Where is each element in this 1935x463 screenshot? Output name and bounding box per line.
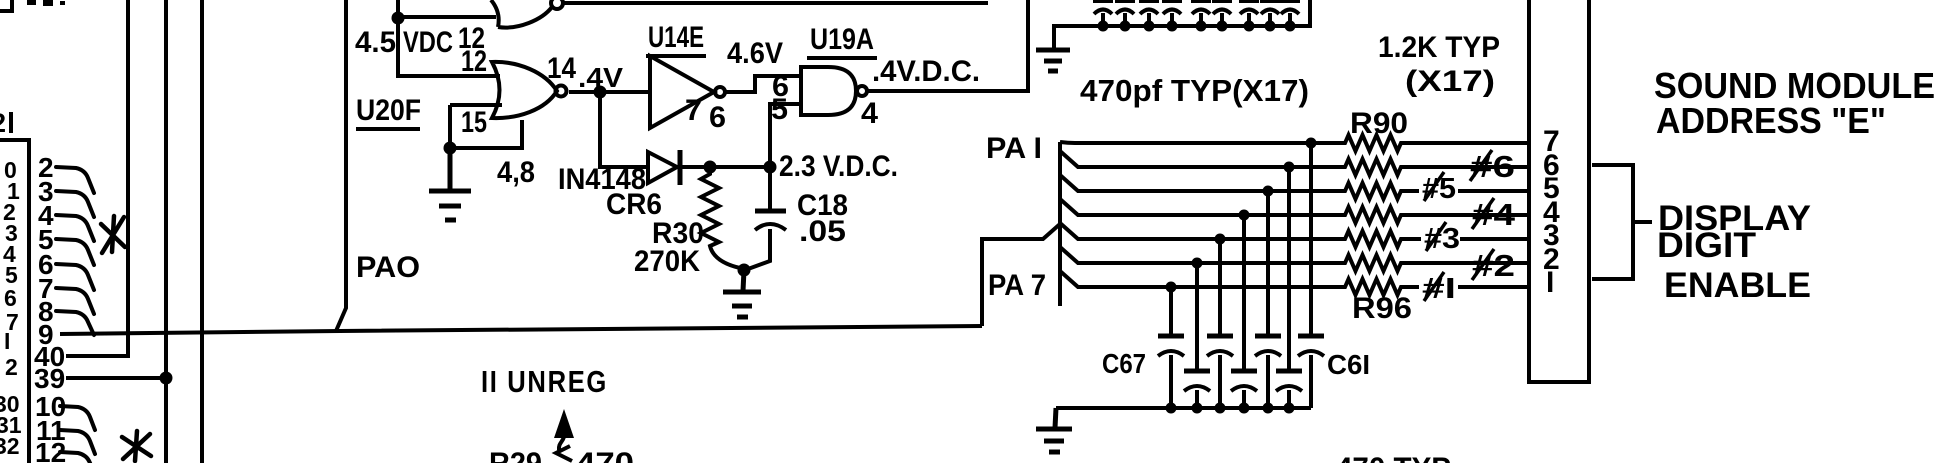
- svg-text:2.3 V.D.C.: 2.3 V.D.C.: [779, 150, 898, 183]
- svg-text:6: 6: [4, 285, 17, 311]
- wire vertical PA0 drop: [336, 0, 346, 331]
- pin 2 hook: [56, 167, 94, 193]
- svg-text:VDC: VDC: [403, 26, 453, 59]
- ground U20F: [429, 148, 471, 220]
- gate U20E partial top: [491, 0, 552, 28]
- nand U19A: [801, 67, 856, 115]
- op-amp U20F nor gate: [492, 62, 557, 118]
- wire pin39: [66, 376, 166, 380]
- capacitor C67 tap wire: [1169, 287, 1173, 334]
- wire PA bus vertical: [1058, 142, 1062, 306]
- pin 6 hook: [56, 264, 94, 290]
- ground top bus: [1036, 50, 1070, 71]
- bubble U14E: [715, 87, 725, 97]
- capacitor C18: [768, 167, 772, 209]
- svg-text:32: 32: [0, 433, 20, 459]
- svg-text:.05: .05: [799, 215, 846, 248]
- junction 4.5VDC: [392, 12, 405, 25]
- text fragment top edge: [60, 1, 65, 5]
- bubble U19A: [857, 86, 867, 96]
- capacitor c3 tap wire: [1218, 239, 1222, 334]
- junction pin15: [444, 142, 457, 155]
- capacitor C61: [1298, 334, 1324, 339]
- svg-text:4: 4: [861, 97, 878, 130]
- wire row2: [1060, 151, 1529, 175]
- junction row3 tap: [1263, 186, 1274, 197]
- pin15 loop wire: [450, 105, 522, 148]
- svg-text:#6: #6: [1470, 149, 1515, 184]
- wire diode to node: [682, 165, 770, 169]
- svg-text:R96: R96: [1352, 292, 1412, 325]
- svg-text:R90: R90: [1350, 107, 1408, 140]
- capacitor C61 tap wire: [1309, 143, 1313, 334]
- node .4V junction: [594, 86, 607, 99]
- svg-text:6: 6: [709, 101, 726, 134]
- wire vertical bus A: [164, 0, 168, 463]
- bubble top gate: [551, 0, 563, 9]
- svg-text:470pf TYP(X17): 470pf TYP(X17): [1080, 73, 1309, 108]
- junction row2 tap: [1284, 162, 1295, 173]
- svg-text:1.2K TYP: 1.2K TYP: [1378, 31, 1500, 64]
- wire pin40: [66, 0, 128, 356]
- svg-text:12: 12: [461, 45, 487, 78]
- wire 4.5VDC feed: [398, 0, 500, 76]
- pin 8 hook: [56, 311, 94, 335]
- wire vertical bus B: [200, 0, 204, 463]
- inverter U14E: [650, 56, 714, 128]
- junction pin39: [160, 372, 173, 385]
- capacitor c2 tap wire: [1195, 263, 1199, 369]
- arrow 11 unreg: [554, 409, 574, 438]
- svg-text:I: I: [4, 328, 10, 354]
- capacitor top row t8: [1260, 1, 1280, 26]
- pin 11 hook: [60, 430, 95, 454]
- capacitor top row t6: [1212, 1, 1232, 26]
- capacitor top row t3: [1139, 1, 1159, 26]
- junction row1 tap: [1306, 138, 1317, 149]
- svg-text:5: 5: [771, 93, 788, 126]
- capacitor c6: [1276, 369, 1302, 374]
- wire PA0 pin9 long run: [60, 326, 982, 334]
- wire top feedback: [564, 1, 988, 5]
- svg-text:2: 2: [5, 354, 18, 380]
- capacitor c2: [1184, 369, 1210, 374]
- junction row7 tap: [1166, 282, 1177, 293]
- pin 7 hook: [56, 288, 94, 314]
- svg-text:2: 2: [0, 108, 6, 138]
- capacitor top row t9: [1280, 1, 1300, 26]
- svg-text:4.5: 4.5: [355, 26, 396, 59]
- capacitor top row t4: [1162, 1, 1182, 26]
- top cap row (470pf x17): [1093, 1, 1300, 26]
- ground R30 C18: [723, 270, 761, 317]
- junction row4 tap: [1239, 210, 1250, 221]
- text fragment top edge: [43, 0, 53, 6]
- svg-text:I: I: [1546, 266, 1554, 299]
- junction R30 top: [704, 161, 717, 174]
- svg-text:II UNREG: II UNREG: [481, 364, 608, 399]
- svg-text:15: 15: [461, 106, 487, 139]
- pin 10 hook: [60, 406, 95, 430]
- wire to top gate input: [398, 15, 496, 19]
- junction row5 tap: [1215, 234, 1226, 245]
- wire .4V node down: [600, 92, 648, 167]
- asterisk mark 2: [122, 431, 151, 461]
- bubble U20F: [556, 86, 567, 97]
- node PA0 label col: [0, 157, 22, 459]
- wire row5: [1060, 223, 1529, 247]
- capacitor c4 tap wire: [1242, 215, 1246, 369]
- svg-text:U19A: U19A: [810, 23, 874, 56]
- svg-text:(X17): (X17): [1405, 65, 1495, 98]
- text fragment top edge: [27, 0, 36, 5]
- capacitor c5 tap wire: [1266, 191, 1270, 334]
- capacitor top row t5: [1191, 1, 1211, 26]
- svg-text:#4: #4: [1472, 197, 1516, 232]
- svg-text:PA 7: PA 7: [988, 269, 1046, 302]
- underline U20F: [356, 127, 420, 131]
- capacitor top row t7: [1239, 1, 1259, 26]
- connector U21 box edge: [0, 140, 29, 463]
- wire row3: [1060, 175, 1529, 199]
- top cap bus wire: [1054, 0, 1310, 48]
- wire row6: [1060, 247, 1529, 271]
- diode CR6 cathode bar: [678, 150, 683, 185]
- wire bottom cap bus: [1056, 406, 1311, 410]
- resistor R30: [701, 167, 740, 268]
- svg-text:4,8: 4,8: [497, 156, 535, 189]
- asterisk mark 1: [101, 216, 125, 253]
- svg-text:PAO: PAO: [356, 251, 420, 284]
- wire row1 PA1: [1060, 135, 1529, 151]
- connector sound module box: [1529, 0, 1589, 382]
- svg-text:470 TYP: 470 TYP: [1336, 452, 1451, 463]
- pin numbers column: [34, 152, 66, 463]
- pin 5 hook: [56, 239, 94, 265]
- junction R30 C18 gnd: [738, 264, 751, 277]
- svg-text:14: 14: [547, 52, 576, 85]
- junction row6 tap: [1192, 258, 1203, 269]
- capacitor C67: [1158, 334, 1184, 339]
- svg-text:R29: R29: [489, 447, 542, 463]
- pin 3 hook: [56, 191, 94, 217]
- junction top bus dots: [1098, 21, 1109, 32]
- wire U20F out: [569, 90, 650, 94]
- svg-text:DIGIT: DIGIT: [1657, 226, 1756, 265]
- ground bottom bus: [1036, 408, 1072, 452]
- svg-text:470: 470: [576, 447, 634, 463]
- svg-text:270K: 270K: [634, 245, 700, 278]
- capacitor c6 tap wire: [1287, 167, 1291, 369]
- underline U19A: [807, 56, 877, 60]
- svg-text:U14E: U14E: [648, 21, 704, 54]
- svg-text:4.6V: 4.6V: [727, 37, 783, 70]
- svg-text:#2: #2: [1472, 248, 1515, 283]
- svg-text:C6I: C6I: [1327, 349, 1370, 380]
- pin15 stub: [450, 103, 502, 107]
- svg-text:PA I: PA I: [986, 132, 1042, 165]
- svg-text:U20F: U20F: [356, 94, 421, 127]
- capacitor top row t2: [1115, 1, 1135, 26]
- junction 2.3VDC node: [764, 161, 777, 174]
- svg-text:12: 12: [35, 437, 66, 463]
- svg-text:C67: C67: [1102, 348, 1146, 379]
- capacitor c5: [1255, 334, 1281, 339]
- pin 4 hook: [56, 215, 94, 241]
- svg-text:7: 7: [685, 94, 702, 127]
- wire pin5 drop: [770, 104, 801, 167]
- wire row4: [1060, 199, 1529, 223]
- svg-text:.4V: .4V: [578, 62, 623, 93]
- resistor R29 partial: [556, 446, 572, 461]
- svg-text:ADDRESS "E": ADDRESS "E": [1656, 100, 1886, 141]
- bracket display digit enable: [1592, 165, 1652, 279]
- box corner fragment top-left: [0, 0, 12, 11]
- wire row7: [1060, 271, 1529, 295]
- junction bus dots: [1166, 403, 1177, 414]
- wire PA stair: [982, 224, 1060, 326]
- capacitor top row t1: [1093, 1, 1113, 26]
- svg-text:39: 39: [34, 363, 65, 394]
- underline U14E: [646, 54, 706, 58]
- diode CR6: [648, 152, 677, 183]
- pin 12 hook: [60, 452, 95, 463]
- wire inv out to nand: [726, 76, 801, 92]
- capacitor c4: [1231, 369, 1257, 374]
- capacitor c3: [1207, 334, 1233, 339]
- svg-text:.4V.D.C.: .4V.D.C.: [872, 55, 980, 88]
- svg-text:ENABLE: ENABLE: [1664, 266, 1811, 305]
- wire nand out feedback: [868, 0, 1028, 91]
